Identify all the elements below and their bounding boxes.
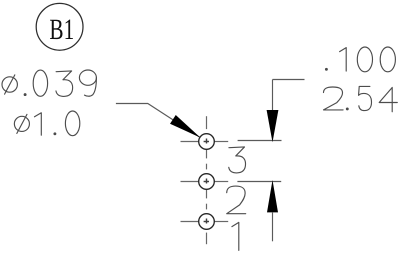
- text ⌀.039: [2, 77, 17, 92]
- pad 2 hole circle: [199, 174, 215, 190]
- dimension arrow down: [267, 110, 279, 142]
- balloon B1: [36, 3, 83, 50]
- pin number 1: [232, 222, 239, 250]
- dimension line lower: [272, 212, 274, 241]
- dimension text 2.54: [324, 87, 344, 110]
- svg-text:B1: B1: [49, 14, 74, 46]
- extension line pin 2: [237, 181, 281, 183]
- dimension line upper: [272, 80, 274, 112]
- dimension text .100: [325, 68, 328, 71]
- pin number 2: [227, 186, 246, 214]
- pad 2 crosshair: [181, 181, 199, 183]
- leader arrowhead: [170, 115, 200, 138]
- pad 1 crosshair: [181, 221, 199, 223]
- pin number 3: [229, 147, 246, 173]
- pad 1 hole circle: [199, 214, 215, 230]
- dimension shoulder line: [273, 79, 305, 81]
- extension line pin 3: [238, 140, 282, 142]
- text ⌀1.0: [14, 116, 29, 131]
- vertical centerline: [206, 116, 208, 129]
- leader line: [116, 104, 200, 138]
- pad 3 hole circle: [199, 134, 215, 150]
- pad 3 crosshair: [181, 141, 199, 143]
- dimension arrow up: [267, 180, 278, 212]
